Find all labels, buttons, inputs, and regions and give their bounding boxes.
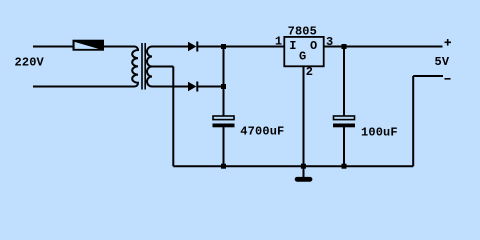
svg-text:3: 3 xyxy=(326,35,333,49)
svg-text:7805: 7805 xyxy=(288,25,317,39)
wire rectifier node vertical to C1 xyxy=(223,47,225,117)
wire regulator pin 2 ground xyxy=(303,66,305,177)
wire C1 to ground rail xyxy=(223,127,225,166)
wire C2 top xyxy=(343,47,345,117)
regulator U1 7805 box xyxy=(284,37,323,66)
svg-text:1: 1 xyxy=(275,35,282,49)
svg-text:G: G xyxy=(299,50,306,64)
wire output minus vertical xyxy=(412,76,414,166)
label output plus xyxy=(445,39,452,46)
wire secondary top to diode D1 xyxy=(152,46,188,48)
svg-text:O: O xyxy=(310,39,317,53)
svg-text:100uF: 100uF xyxy=(361,126,398,140)
transformer T1 secondary top winding xyxy=(147,47,152,67)
capacitor C1 4700uF xyxy=(213,116,235,127)
wire center tap horizontal xyxy=(152,66,173,68)
ground symbol xyxy=(295,177,313,182)
transformer T1 core xyxy=(142,43,145,90)
wire ground rail xyxy=(173,165,413,167)
node junction dot C2 ground xyxy=(342,164,347,169)
wire top input left xyxy=(33,46,73,48)
svg-text:2: 2 xyxy=(306,65,313,79)
wire D2 to node xyxy=(198,86,224,88)
fuse F1 xyxy=(73,40,104,50)
wire regulator pin 3 to output xyxy=(324,46,443,48)
wire output minus horizontal xyxy=(413,75,443,77)
wire center tap vertical xyxy=(172,67,174,167)
wire D1 to regulator pin 1 xyxy=(198,46,284,48)
transformer T1 primary winding xyxy=(132,47,138,87)
wire secondary bottom to diode D2 xyxy=(152,86,188,88)
node junction dot C1 ground xyxy=(221,164,226,169)
wire fuse to transformer xyxy=(103,46,135,48)
node junction dot regulator ground xyxy=(301,164,306,169)
capacitor C2 100uF xyxy=(333,116,355,127)
svg-text:5V: 5V xyxy=(435,55,450,69)
wire bottom input xyxy=(33,86,135,88)
diode D1 xyxy=(188,42,197,52)
transformer T1 secondary bottom winding xyxy=(147,67,152,87)
node junction dot rectifier output xyxy=(221,44,226,49)
svg-text:4700uF: 4700uF xyxy=(240,125,284,139)
node junction dot regulator output xyxy=(342,44,347,49)
label output minus xyxy=(445,78,451,80)
diode D2 xyxy=(188,82,197,92)
svg-text:220V: 220V xyxy=(15,56,45,70)
node junction dot D2 output xyxy=(221,84,226,89)
wire C2 bottom xyxy=(343,127,345,166)
svg-text:I: I xyxy=(289,39,296,53)
